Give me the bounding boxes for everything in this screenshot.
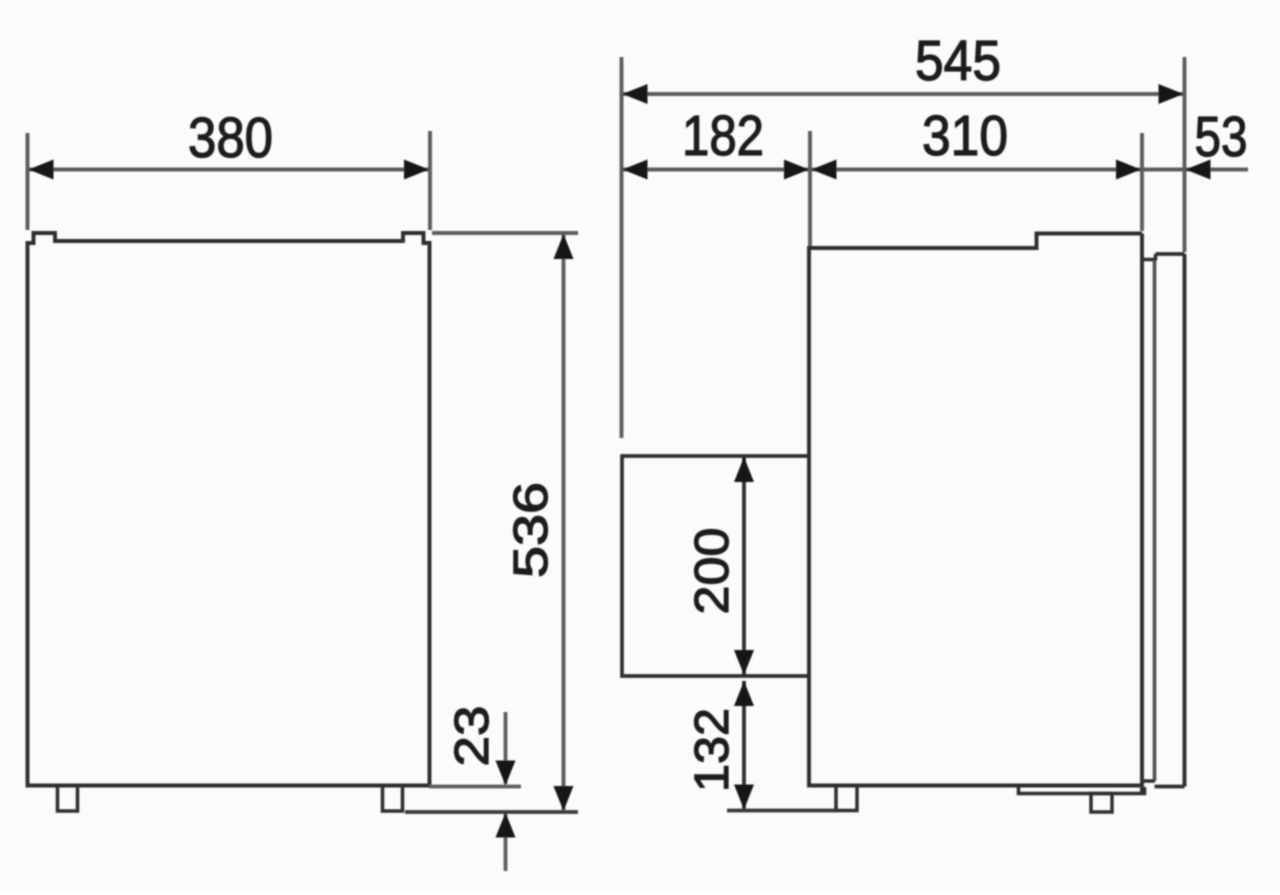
svg-text:380: 380 [188, 106, 273, 170]
dim 536 top extension line [432, 231, 578, 235]
svg-text:536: 536 [505, 482, 558, 578]
dim 23 extension line (body bottom level) [429, 785, 521, 789]
svg-text:310: 310 [922, 104, 1008, 168]
dim 380 left arrowhead [29, 160, 54, 180]
dim 545 left extension line [620, 57, 624, 438]
front view left foot [58, 786, 78, 812]
svg-text:23: 23 [446, 706, 499, 767]
door front edge [1183, 254, 1187, 787]
dim 182 right arrowhead [784, 160, 809, 180]
dim 23 upper leader line [504, 712, 508, 784]
dim 23 upper arrowhead (down) [496, 761, 516, 786]
dim 200 dimension line [742, 457, 746, 675]
dim 132 top arrowhead [734, 681, 754, 706]
dim 23 lower arrowhead (up) [496, 813, 516, 838]
front view body outline [28, 233, 430, 786]
dim 380 dimension line [29, 168, 429, 172]
dim 200 bottom arrowhead [734, 650, 754, 675]
front view right foot [383, 786, 403, 812]
dim 53 arrowhead [1186, 160, 1211, 180]
dim 380 left extension line [26, 133, 30, 230]
dim 182 left arrowhead [623, 160, 648, 180]
dim 545 left arrowhead [623, 84, 648, 104]
dim 536 bottom arrowhead [554, 786, 574, 811]
door inner edge [1153, 261, 1157, 782]
dim 132 bottom arrowhead [734, 785, 754, 810]
dim 380 right extension line [428, 131, 432, 230]
dim 200 top arrowhead [734, 457, 754, 482]
door gasket bottom [1142, 779, 1155, 783]
dim 536 bottom extension line (foot level) [405, 810, 578, 814]
door top edge [1156, 252, 1185, 256]
door bottom edge [1155, 785, 1185, 789]
dim 545 right extension line [1183, 57, 1187, 252]
svg-text:200: 200 [686, 528, 739, 615]
dim 380 right arrowhead [404, 160, 429, 180]
dim 536 top arrowhead [554, 234, 574, 259]
svg-text:132: 132 [686, 708, 739, 792]
dim row2 middle extension line [808, 131, 812, 246]
side view rear foot [836, 786, 857, 811]
door top step vertical [1154, 254, 1158, 261]
side view front foot [1091, 794, 1112, 813]
side view body outline [809, 234, 1142, 786]
svg-text:53: 53 [1195, 105, 1248, 169]
compressor unit box [622, 456, 809, 676]
door top step horizontal [1142, 258, 1156, 262]
dim 310 right arrowhead [1116, 160, 1141, 180]
dim row2 dimension line [623, 168, 1248, 172]
dim row2 right extension line [1140, 133, 1144, 231]
svg-text:182: 182 [682, 104, 764, 168]
dim 132 dimension line [742, 681, 746, 809]
side view bottom plinth [1019, 786, 1145, 794]
dim 23 lower leader line [504, 814, 508, 871]
dim 536 dimension line [562, 234, 566, 811]
dim 310 left arrowhead [812, 160, 837, 180]
svg-text:545: 545 [915, 29, 1001, 93]
side view body right edge [1140, 234, 1144, 795]
dim 132 floor extension line [727, 809, 836, 813]
dim 545 right arrowhead [1159, 84, 1184, 104]
dim 545 dimension line [623, 92, 1183, 96]
